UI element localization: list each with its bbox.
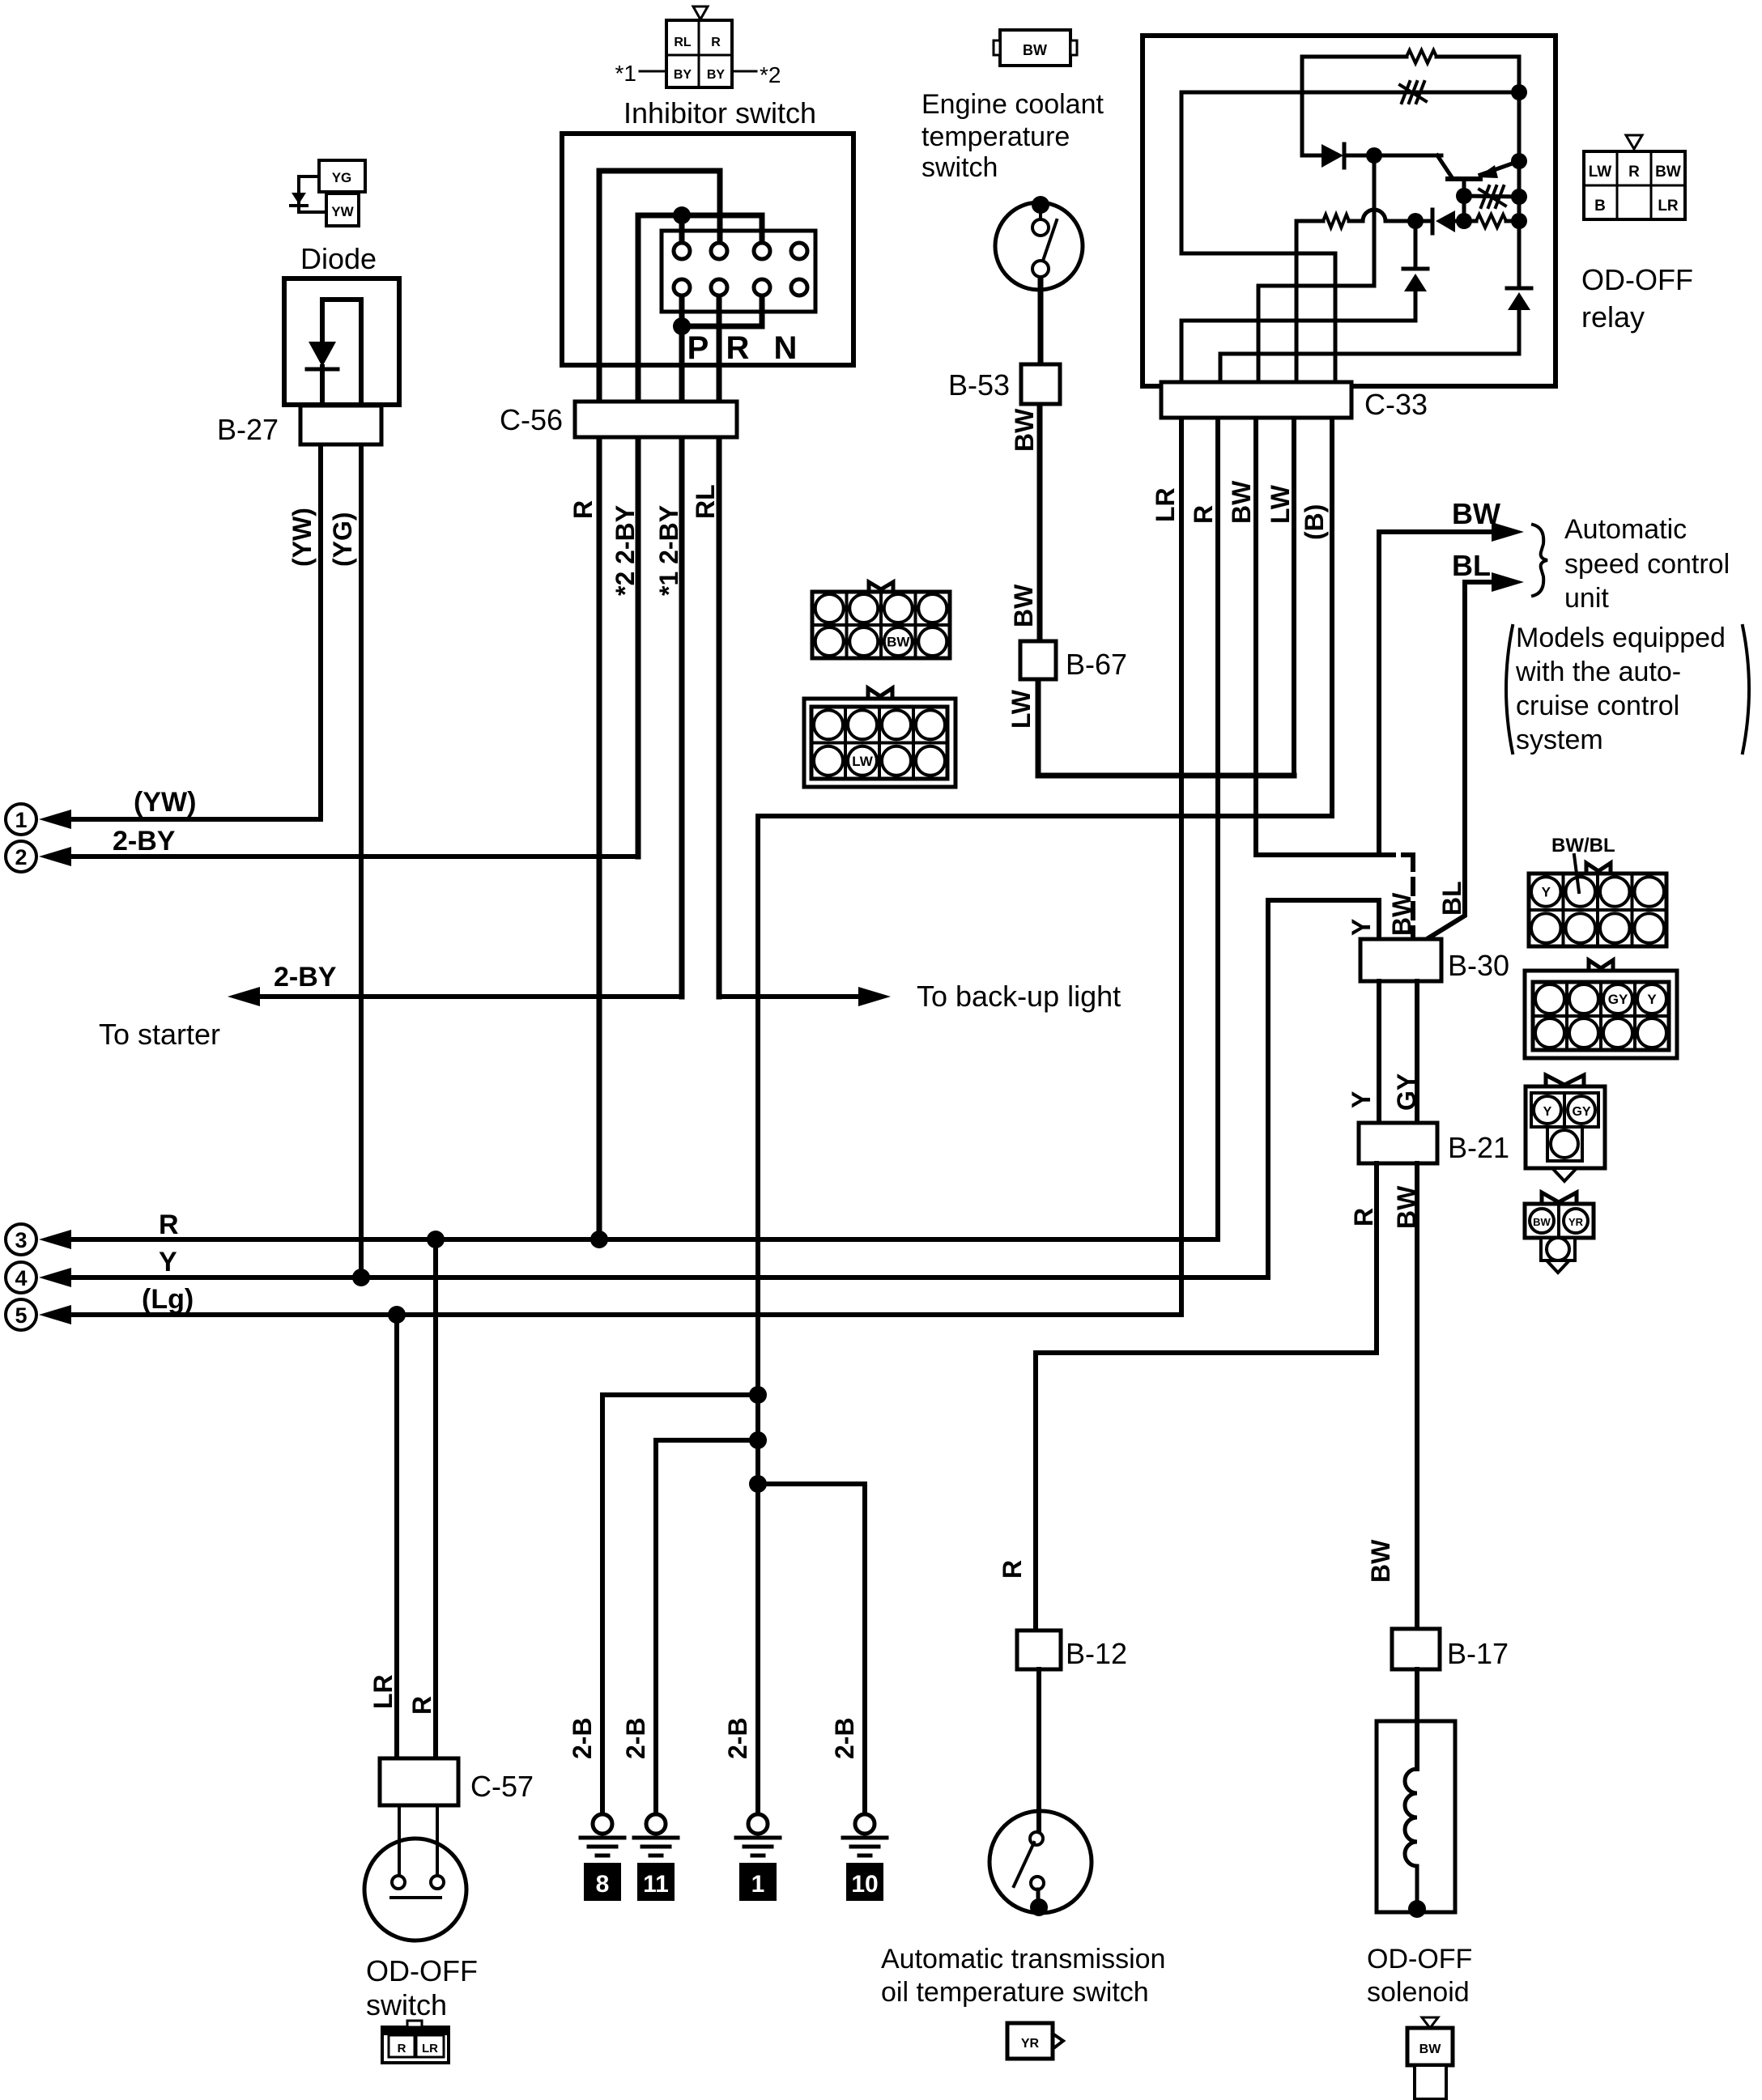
svg-text:BL: BL — [1452, 549, 1491, 582]
svg-text:LR: LR — [1151, 487, 1180, 522]
svg-text:YR: YR — [1021, 2037, 1040, 2051]
svg-text:*2 2-BY: *2 2-BY — [611, 505, 640, 596]
svg-text:*1 2-BY: *1 2-BY — [654, 505, 683, 596]
svg-text:GY: GY — [1392, 1073, 1421, 1111]
svg-text:*2: *2 — [760, 62, 781, 87]
svg-text:2-B: 2-B — [568, 1717, 597, 1759]
svg-text:B-67: B-67 — [1066, 648, 1127, 681]
svg-text:B-53: B-53 — [948, 368, 1010, 402]
svg-text:GY: GY — [1608, 992, 1628, 1007]
svg-text:Y: Y — [1347, 919, 1376, 936]
svg-text:4: 4 — [15, 1266, 27, 1290]
svg-text:switch: switch — [921, 152, 998, 183]
svg-text:(YW): (YW) — [287, 508, 317, 567]
svg-text:Engine coolant: Engine coolant — [921, 89, 1104, 120]
svg-text:(B): (B) — [1300, 504, 1329, 540]
svg-text:10: 10 — [851, 1871, 878, 1898]
svg-text:speed control: speed control — [1564, 549, 1730, 580]
svg-text:LW: LW — [1589, 164, 1612, 181]
svg-text:OD-OFF: OD-OFF — [366, 1954, 478, 1987]
svg-text:5: 5 — [15, 1303, 27, 1328]
svg-text:LR: LR — [368, 1674, 398, 1709]
svg-text:R: R — [568, 500, 598, 519]
svg-text:Diode: Diode — [300, 242, 377, 275]
svg-text:LW: LW — [852, 754, 873, 769]
svg-text:P: P — [687, 330, 709, 366]
svg-text:RL: RL — [691, 484, 720, 519]
svg-text:R: R — [1189, 505, 1218, 524]
svg-text:Inhibitor switch: Inhibitor switch — [624, 96, 816, 130]
svg-text:2: 2 — [15, 845, 27, 869]
svg-text:2-B: 2-B — [621, 1717, 650, 1759]
svg-text:Models equipped: Models equipped — [1516, 623, 1726, 653]
svg-text:BW: BW — [1023, 42, 1047, 58]
svg-text:temperature: temperature — [921, 121, 1070, 152]
svg-text:R: R — [1628, 164, 1640, 181]
svg-text:B: B — [1594, 198, 1606, 215]
svg-text:GY: GY — [1572, 1105, 1590, 1119]
svg-text:LR: LR — [1658, 198, 1679, 215]
svg-text:R: R — [711, 36, 721, 49]
svg-text:B-27: B-27 — [217, 413, 279, 446]
svg-text:BW/BL: BW/BL — [1551, 835, 1615, 857]
svg-text:RL: RL — [674, 36, 692, 49]
svg-text:R: R — [726, 330, 750, 366]
svg-text:Y: Y — [1347, 1091, 1376, 1108]
svg-text:BW: BW — [887, 635, 910, 650]
svg-text:BY: BY — [707, 68, 726, 82]
svg-text:BW: BW — [1010, 408, 1039, 452]
svg-text:YW: YW — [331, 204, 354, 219]
svg-text:*1: *1 — [615, 61, 636, 86]
svg-text:1: 1 — [15, 808, 27, 832]
svg-text:C-33: C-33 — [1364, 388, 1428, 421]
svg-text:cruise control: cruise control — [1516, 691, 1679, 721]
svg-text:OD-OFF: OD-OFF — [1581, 263, 1693, 296]
svg-text:11: 11 — [643, 1871, 669, 1898]
svg-text:(YW): (YW) — [134, 787, 196, 818]
svg-text:oil temperature switch: oil temperature switch — [881, 1977, 1149, 2008]
svg-text:BW: BW — [1009, 584, 1038, 627]
svg-text:C-56: C-56 — [500, 403, 563, 436]
svg-text:C-57: C-57 — [470, 1770, 534, 1803]
svg-text:unit: unit — [1564, 583, 1609, 614]
svg-text:N: N — [774, 330, 798, 366]
svg-text:R: R — [1349, 1208, 1378, 1226]
svg-text:1: 1 — [751, 1871, 765, 1898]
svg-text:YG: YG — [332, 170, 352, 185]
svg-text:3: 3 — [15, 1228, 27, 1252]
svg-text:BW: BW — [1387, 892, 1416, 936]
svg-text:R: R — [398, 2042, 406, 2055]
svg-text:2-BY: 2-BY — [113, 826, 176, 857]
svg-text:Y: Y — [159, 1247, 177, 1277]
svg-text:2-B: 2-B — [723, 1717, 752, 1759]
svg-text:BW: BW — [1533, 1216, 1551, 1228]
svg-text:R: R — [407, 1696, 436, 1715]
svg-text:BW: BW — [1419, 2043, 1442, 2056]
svg-text:system: system — [1516, 725, 1603, 755]
svg-text:To starter: To starter — [99, 1018, 220, 1051]
svg-text:2-BY: 2-BY — [274, 962, 337, 993]
svg-text:Y: Y — [1543, 1105, 1552, 1119]
svg-text:BY: BY — [674, 68, 692, 82]
svg-text:BW: BW — [1392, 1185, 1421, 1229]
svg-text:BW: BW — [1452, 497, 1500, 530]
svg-text:LW: LW — [1266, 484, 1295, 524]
svg-text:(Lg): (Lg) — [142, 1284, 194, 1315]
svg-text:R: R — [998, 1560, 1027, 1579]
svg-text:YR: YR — [1568, 1216, 1584, 1228]
svg-text:(YG): (YG) — [328, 512, 357, 567]
svg-text:B-30: B-30 — [1448, 949, 1509, 982]
svg-text:BW: BW — [1655, 164, 1681, 181]
svg-text:To back-up light: To back-up light — [917, 980, 1121, 1013]
svg-text:solenoid: solenoid — [1367, 1977, 1470, 2008]
svg-text:B-21: B-21 — [1448, 1131, 1509, 1164]
svg-text:Automatic transmission: Automatic transmission — [881, 1944, 1165, 1975]
svg-text:Automatic: Automatic — [1564, 514, 1687, 545]
svg-text:BL: BL — [1437, 881, 1466, 916]
svg-text:with the auto-: with the auto- — [1515, 657, 1681, 687]
svg-text:Y: Y — [1647, 992, 1657, 1007]
svg-text:B-17: B-17 — [1447, 1637, 1509, 1670]
svg-text:R: R — [159, 1209, 179, 1240]
svg-text:relay: relay — [1581, 300, 1645, 334]
svg-text:switch: switch — [366, 1988, 447, 2021]
svg-text:BW: BW — [1227, 480, 1256, 524]
svg-text:OD-OFF: OD-OFF — [1367, 1944, 1472, 1975]
svg-text:8: 8 — [596, 1871, 610, 1898]
svg-text:BW: BW — [1366, 1539, 1395, 1583]
svg-text:B-12: B-12 — [1066, 1637, 1127, 1670]
svg-text:Y: Y — [1542, 885, 1551, 900]
svg-text:LW: LW — [1007, 689, 1036, 729]
svg-text:LR: LR — [422, 2042, 438, 2055]
svg-text:2-B: 2-B — [830, 1717, 859, 1759]
